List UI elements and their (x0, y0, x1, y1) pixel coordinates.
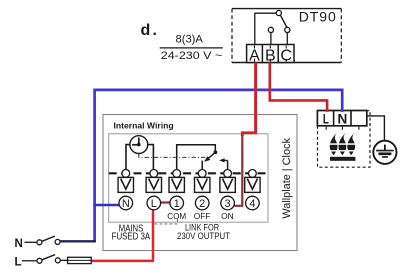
heater appliance box (318, 111, 371, 168)
heating element bar (330, 157, 355, 161)
svg-text:B: B (265, 47, 276, 64)
svg-text:230V OUTPUT: 230V OUTPUT (177, 231, 230, 241)
svg-text:24-230 V ~: 24-230 V ~ (161, 50, 223, 62)
connector 2 (195, 170, 210, 193)
rating label 8(3)A (176, 34, 204, 46)
mains N switch (25, 236, 61, 245)
svg-text:DT90: DT90 (299, 9, 337, 25)
connector 4 (245, 170, 260, 193)
thermostat U1 DT90 box (232, 9, 341, 63)
wallplate clock dashed separation line (109, 172, 268, 174)
terminal L circle (147, 196, 161, 210)
earth symbol E1 (373, 141, 396, 164)
terminal 3 circle (221, 196, 235, 210)
clock wire to N connector (126, 145, 130, 170)
contact stub 3 with arrow (219, 158, 227, 169)
svg-text:3: 3 (225, 198, 231, 210)
heating element flames (328, 133, 359, 156)
label Internal Wiring (114, 120, 174, 130)
svg-text:8(3)A: 8(3)A (176, 34, 204, 46)
wallplate outer box (103, 115, 297, 251)
svg-text:N: N (122, 198, 130, 210)
svg-text:L: L (323, 110, 329, 126)
svg-text:2: 2 (199, 198, 205, 210)
DT90 contact C (285, 27, 290, 44)
svg-text:C: C (280, 47, 292, 64)
DT90 switch pivot contact (276, 10, 281, 15)
contact stub 2 (201, 161, 203, 170)
label Wallplate Clock (281, 138, 293, 219)
wire maroon link L to 1 (161, 201, 171, 203)
DT90 switch common wire from A (255, 13, 276, 44)
clock motor M1 (130, 136, 148, 154)
svg-text:ON: ON (221, 211, 234, 221)
terminal A label (249, 47, 260, 64)
svg-text:A: A (249, 47, 260, 64)
label COM (167, 211, 186, 221)
mains L switch (22, 255, 68, 264)
connector 3 (220, 170, 235, 193)
terminal C label (280, 47, 292, 64)
terminal N circle (119, 196, 133, 210)
DT90 switch blade (280, 15, 289, 32)
heater terminal L label (323, 110, 329, 126)
terminal 4 circle (246, 196, 260, 210)
svg-text:4: 4 (249, 198, 255, 210)
svg-text:Internal Wiring: Internal Wiring (114, 120, 174, 130)
switch blade with arrow (204, 152, 215, 162)
label OFF (194, 211, 211, 221)
connector 1 (169, 170, 184, 193)
svg-text:1: 1 (174, 198, 180, 210)
DT90 terminal block A B C (247, 45, 294, 63)
switch pivot dot (214, 150, 218, 154)
svg-text:FUSED 3A: FUSED 3A (112, 231, 151, 242)
terminal 1 circle (170, 196, 184, 210)
connector L (146, 170, 161, 193)
clock wire to L connector (148, 145, 154, 170)
fuse F1 (68, 257, 92, 263)
wire blue into terminal N (93, 204, 119, 206)
rating fraction bar (160, 47, 223, 49)
svg-text:L: L (15, 256, 22, 268)
terminal screw dashes A B C (255, 46, 287, 62)
svg-text:N: N (338, 110, 348, 126)
DT90 contact B (268, 27, 273, 44)
heater terminal strip L N (317, 111, 366, 126)
wire navy from N switch (59, 240, 96, 242)
dashed link indicator (155, 218, 178, 224)
svg-text:OFF: OFF (194, 211, 211, 221)
svg-text:L: L (151, 198, 157, 210)
svg-text:Wallplate | Clock: Wallplate | Clock (281, 138, 293, 219)
wire blue mains neutral loop (95, 90, 343, 241)
label MAINS FUSED 3A (112, 224, 151, 243)
rating label 24-230 V ~ (161, 50, 223, 62)
svg-text:N: N (15, 238, 23, 250)
heater terminal screw dashes (326, 127, 359, 130)
terminal 2 circle (195, 196, 209, 210)
internal wiring inner box (109, 134, 268, 222)
wire red from DT90 A (242, 63, 255, 137)
label LINK FOR 230V OUTPUT (177, 223, 230, 241)
svg-text:COM: COM (167, 211, 186, 221)
switch wire from connector 1 (177, 145, 216, 170)
svg-text:d.: d. (141, 22, 160, 39)
connector N (118, 170, 133, 193)
label d. (141, 22, 160, 39)
terminal B label (265, 47, 276, 64)
wire red from DT90 B to heater L (270, 63, 327, 112)
wire maroon to terminal 3 (234, 135, 242, 206)
mechanical link dashed line (139, 154, 209, 158)
mains L label (15, 256, 22, 268)
heater terminal N label (338, 110, 348, 126)
earth wire from heater (366, 116, 384, 141)
label ON (221, 211, 234, 221)
mains N label (15, 238, 23, 250)
wire red from fuse to terminal L (91, 210, 153, 261)
